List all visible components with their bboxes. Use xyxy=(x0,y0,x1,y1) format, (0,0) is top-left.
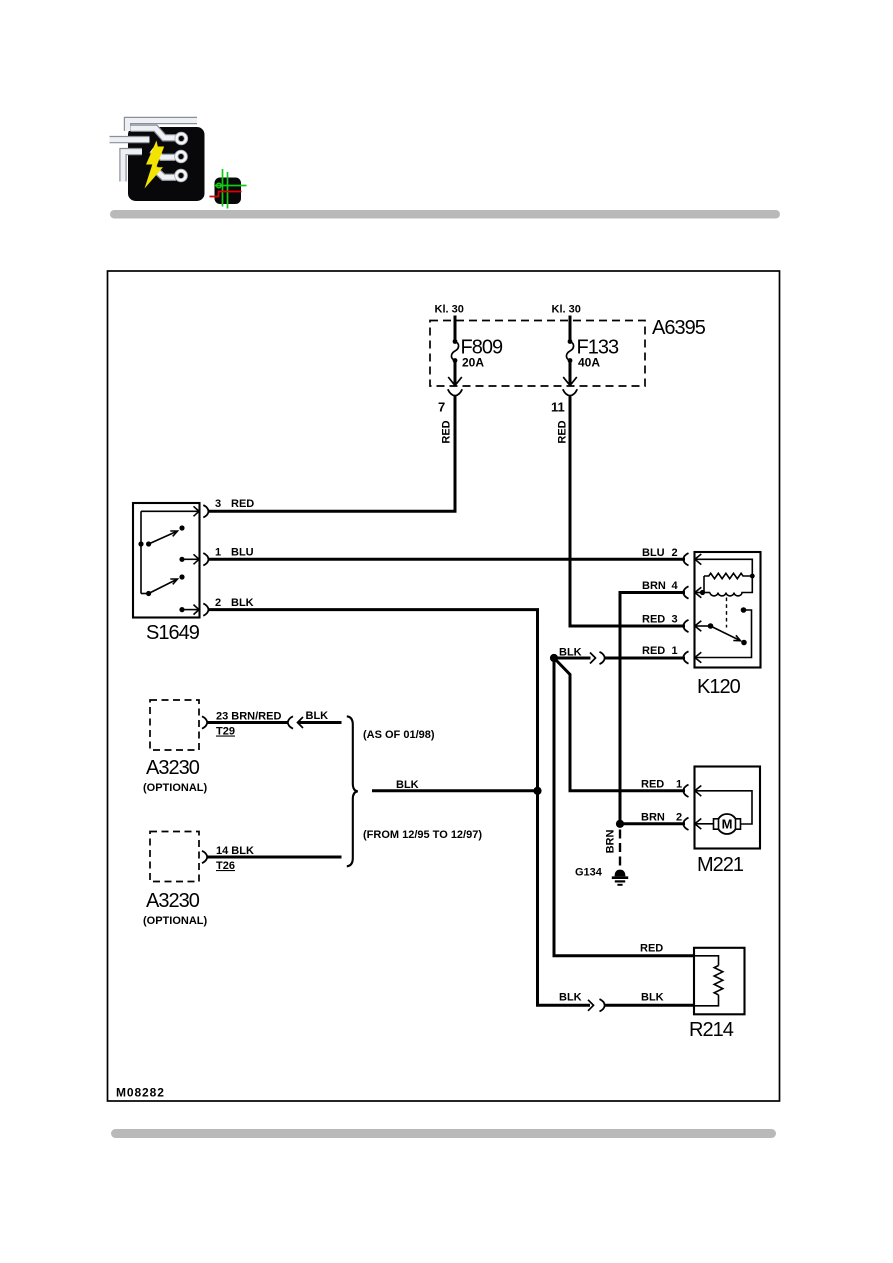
wire BRN K120 pin4 down to M221 pin2 xyxy=(620,593,685,824)
svg-text:RED: RED xyxy=(642,645,665,657)
S1649 arrow pin 1 xyxy=(194,554,200,564)
unit A3230 upper (dashed box) xyxy=(150,700,199,750)
label Kl. 30 (right) xyxy=(552,304,581,316)
wire 14 BLK from A3230 lower xyxy=(208,856,342,859)
svg-text:A3230: A3230 xyxy=(146,757,200,779)
K120 arrow pin 2 xyxy=(695,554,702,565)
wire RED from pin 7 to S1649 pin 3 xyxy=(209,396,455,511)
svg-text:40A: 40A xyxy=(578,356,600,370)
svg-text:(OPTIONAL): (OPTIONAL) xyxy=(143,915,207,927)
wire F133 to box edge xyxy=(569,361,572,385)
label pin 11 xyxy=(551,400,565,415)
top divider bar xyxy=(110,210,780,219)
svg-text:14 BLK: 14 BLK xyxy=(216,845,254,857)
label RED (R214 wire) xyxy=(640,943,663,955)
connector S1649 pin 1 (cup) xyxy=(203,553,208,565)
svg-text:BLU: BLU xyxy=(642,547,665,559)
svg-text:23 BRN/RED: 23 BRN/RED xyxy=(216,711,281,723)
svg-text:4: 4 xyxy=(672,580,679,592)
svg-text:(OPTIONAL): (OPTIONAL) xyxy=(143,782,207,794)
svg-text:RED: RED xyxy=(441,420,453,443)
wire Kl.30 feed into F133 xyxy=(569,316,572,341)
logo icon: small wiring icon xyxy=(210,169,247,209)
wire junction down to R214 RED xyxy=(554,658,694,956)
wire BLU S1649 pin1 to K120 pin2 xyxy=(209,558,685,561)
wire F809 to box edge xyxy=(454,361,457,385)
label RED 3 xyxy=(642,614,678,626)
svg-text:Kl. 30: Kl. 30 xyxy=(552,304,581,316)
label 14 BLK xyxy=(216,845,254,857)
label M221 xyxy=(697,854,744,876)
label A6395 xyxy=(652,317,706,339)
connector pin 7 (cup) xyxy=(448,389,462,395)
svg-text:RED: RED xyxy=(640,943,663,955)
label BRN (vertical) xyxy=(605,830,617,854)
svg-text:M221: M221 xyxy=(697,854,744,876)
svg-text:M08282: M08282 xyxy=(116,1086,165,1100)
wire BLK connector to R214 xyxy=(605,1004,695,1007)
svg-text:BLU: BLU xyxy=(231,547,254,559)
inline connector arrow (A3230 upper wire) xyxy=(298,717,304,728)
M221 arrow pin 1 xyxy=(695,786,702,797)
label Kl. 30 (left) xyxy=(435,304,464,316)
label A3230 lower xyxy=(146,890,200,912)
wire RED from pin 11 to K120 pin 3 xyxy=(570,397,685,627)
wire BLK brace to junction xyxy=(372,789,538,792)
label R214 xyxy=(689,1019,734,1041)
S1649 lower throw dot xyxy=(179,574,184,579)
label BRN 4 xyxy=(642,580,679,592)
label K120 xyxy=(697,676,741,698)
M221 arrow pin 2 xyxy=(695,819,702,830)
connector A3230 lower (cup) xyxy=(202,851,207,863)
inline connector cup (A3230 upper wire) xyxy=(288,716,293,728)
ground G134 symbol xyxy=(612,870,628,885)
K120 arrow pin 3 xyxy=(695,621,702,632)
junction dot BLK near K120 xyxy=(550,654,558,662)
label RED 1 (M221) xyxy=(641,779,682,791)
label BRN 2 (M221) xyxy=(641,812,682,824)
label RED (vertical, right fuse wire) xyxy=(557,420,569,443)
svg-text:1: 1 xyxy=(672,645,678,657)
label RED 1 xyxy=(642,645,678,657)
svg-text:BLK: BLK xyxy=(559,992,582,1004)
svg-text:BLK: BLK xyxy=(641,992,664,1004)
svg-text:3: 3 xyxy=(672,614,678,626)
label F809 xyxy=(461,337,503,359)
S1649 upper pole dots xyxy=(138,541,151,546)
label 40A xyxy=(578,356,600,370)
connector pin 11 (cup) xyxy=(563,389,577,395)
svg-text:1: 1 xyxy=(215,547,221,559)
svg-text:A6395: A6395 xyxy=(652,317,706,339)
wire BLK junction to inline connector xyxy=(554,657,591,660)
svg-text:BLK: BLK xyxy=(306,710,329,722)
R214 resistor element xyxy=(714,966,723,995)
motor M221 box xyxy=(695,767,761,849)
S1649 pin 2 contact xyxy=(179,607,198,612)
K120 internal contact-to-pin1 wire xyxy=(695,610,752,658)
S1649 upper switch arm xyxy=(149,531,178,544)
label T26 xyxy=(216,860,235,872)
label S1649 xyxy=(146,622,200,644)
wire BLK S1649 pin2 down to R214 xyxy=(209,610,590,1006)
label BLK (right of connector) xyxy=(641,992,664,1004)
inline connector arrow (R214 wire) xyxy=(588,1000,594,1011)
label RED (vertical, left fuse wire) xyxy=(441,420,453,443)
svg-text:BRN: BRN xyxy=(641,812,665,824)
K120 connector pin 4 xyxy=(683,586,688,598)
wire BRN dashed to ground xyxy=(619,830,621,867)
label G134 xyxy=(575,867,603,879)
connector S1649 pin 2 (cup) xyxy=(203,603,208,615)
K120 pivot dot xyxy=(708,623,714,629)
K120 relay coil xyxy=(710,576,752,596)
svg-text:11: 11 xyxy=(551,400,565,415)
junction dot BLK brace wire xyxy=(533,787,541,795)
K120 actuator dashed link xyxy=(726,598,728,628)
S1649 internal line pin 3 xyxy=(141,510,198,512)
svg-text:M: M xyxy=(722,817,733,832)
arrow at fuse box exit 11 xyxy=(563,377,577,386)
S1649 lower pole dot xyxy=(141,591,151,596)
svg-text:RED: RED xyxy=(231,498,254,510)
svg-text:1: 1 xyxy=(676,779,682,791)
label (AS OF 01/98) xyxy=(363,729,435,741)
wire 23 BRN/RED from A3230 upper xyxy=(208,721,288,724)
connector A3230 upper (cup) xyxy=(202,716,207,728)
M221 connector pin 2 xyxy=(683,818,688,830)
K120 internal pin3 wire xyxy=(695,625,711,627)
M221 internal pin2 wire xyxy=(695,823,714,825)
K120 switch arm xyxy=(711,626,741,641)
unit A3230 lower (dashed box) xyxy=(150,832,199,882)
svg-text:K120: K120 xyxy=(697,676,741,698)
inline connector arrow (RED 1 wire) xyxy=(590,653,596,664)
svg-text:RED: RED xyxy=(642,614,665,626)
K120 resistor-coil left link xyxy=(703,576,705,593)
bottom divider bar xyxy=(111,1129,776,1138)
label 3 RED xyxy=(215,498,254,510)
label F133 xyxy=(577,337,619,359)
label 23 BRN/RED xyxy=(216,711,281,723)
label (OPTIONAL) lower xyxy=(143,915,207,927)
svg-text:7: 7 xyxy=(438,400,445,415)
svg-text:S1649: S1649 xyxy=(146,622,200,644)
label M08282 xyxy=(116,1086,165,1100)
brace joining A3230 wires xyxy=(347,716,358,866)
wire Kl.30 feed into F809 xyxy=(454,316,457,341)
wire junction diagonal down to M221 pin 1 xyxy=(554,658,685,791)
wire BLK to brace (upper) xyxy=(298,721,342,724)
S1649 upper throw dot xyxy=(179,525,184,530)
inline connector cup (R214 wire) xyxy=(600,999,605,1011)
svg-text:BRN: BRN xyxy=(605,830,617,854)
wire RED to K120 pin 1 xyxy=(605,657,686,660)
K120 fixed contact dot xyxy=(741,607,747,613)
connector S1649 pin 3 (cup) xyxy=(203,505,208,517)
junction dot BRN xyxy=(616,820,624,828)
svg-text:T29: T29 xyxy=(216,726,235,738)
svg-text:G134: G134 xyxy=(575,867,603,879)
svg-text:2: 2 xyxy=(215,597,221,609)
label A3230 upper xyxy=(146,757,200,779)
svg-text:T26: T26 xyxy=(216,860,235,872)
svg-text:2: 2 xyxy=(672,547,678,559)
K120 internal pin4 wire xyxy=(695,592,710,594)
label 2 BLK xyxy=(215,597,254,609)
svg-text:Kl. 30: Kl. 30 xyxy=(435,304,464,316)
wire BRN to M221 pin 2 xyxy=(620,822,685,825)
label (FROM 12/95 TO 12/97) xyxy=(363,829,482,841)
label BLK brace wire xyxy=(396,779,419,791)
label BLK at junction xyxy=(559,647,582,659)
svg-text:RED: RED xyxy=(557,420,569,443)
K120 resistor xyxy=(704,573,752,578)
M221 internal pin1 wire xyxy=(695,791,752,824)
label BLK (left of connector) xyxy=(559,992,582,1004)
label BLU 2 xyxy=(642,547,678,559)
S1649 lower switch arm xyxy=(149,579,178,594)
svg-text:RED: RED xyxy=(641,779,664,791)
svg-text:R214: R214 xyxy=(689,1019,734,1041)
K120 throw dot xyxy=(741,640,747,646)
svg-text:(AS OF 01/98): (AS OF 01/98) xyxy=(363,729,435,741)
M221 connector pin 1 xyxy=(683,785,688,797)
K120 node dot right xyxy=(750,574,755,579)
label 20A xyxy=(462,356,484,370)
fuse F133 xyxy=(566,339,573,363)
K120 arrow pin 4 xyxy=(695,587,702,598)
svg-text:20A: 20A xyxy=(462,356,484,370)
S1649 arrow pin 2 xyxy=(194,605,200,615)
diagram border frame xyxy=(108,271,780,1101)
switch S1649 box xyxy=(133,503,200,618)
inline connector cup (RED 1 wire) xyxy=(600,652,605,664)
svg-text:A3230: A3230 xyxy=(146,890,200,912)
K120 connector pin 2 xyxy=(683,553,688,565)
R214 internal bottom wire xyxy=(694,995,719,1006)
K120 pin4 node dot xyxy=(700,590,705,595)
svg-text:(FROM 12/95 TO 12/97): (FROM 12/95 TO 12/97) xyxy=(363,829,482,841)
svg-text:BRN: BRN xyxy=(642,580,666,592)
K120 connector pin 3 xyxy=(683,620,688,632)
R214 internal top wire xyxy=(694,956,719,966)
svg-text:BLK: BLK xyxy=(396,779,419,791)
fuse F809 xyxy=(451,339,458,363)
S1649 internal vertical xyxy=(140,511,142,593)
svg-text:2: 2 xyxy=(676,812,682,824)
label T29 xyxy=(216,726,235,738)
label 1 BLU xyxy=(215,547,254,559)
M221 motor symbol xyxy=(714,814,741,834)
S1649 arrow pin 3 xyxy=(194,506,200,516)
svg-text:BLK: BLK xyxy=(231,597,254,609)
K120 internal pin2 wire xyxy=(695,559,752,576)
resistor R214 box xyxy=(694,948,745,1015)
label BLK (upper A3230 wire) xyxy=(306,710,329,722)
logo icon: circuit-board with lightning bolt xyxy=(110,121,205,202)
fuse box A6395 (dashed) xyxy=(430,321,645,387)
K120 connector pin 1 xyxy=(683,651,688,663)
arrow at fuse box exit 7 xyxy=(448,377,462,386)
label pin 7 xyxy=(438,400,445,415)
S1649 pin 1 contact xyxy=(179,557,198,562)
label (OPTIONAL) upper xyxy=(143,782,207,794)
K120 arrow pin 1 xyxy=(695,652,702,663)
svg-text:3: 3 xyxy=(215,498,221,510)
relay K120 box xyxy=(695,552,761,668)
